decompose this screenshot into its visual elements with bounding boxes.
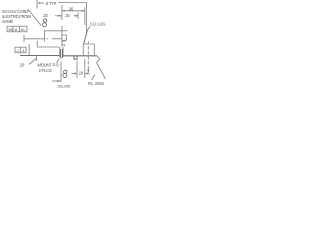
figure-8 glyph bottom xyxy=(63,70,67,77)
GDT frame 1 xyxy=(7,26,27,32)
svg-text:.4: .4 xyxy=(22,48,26,53)
wall centre line xyxy=(61,26,63,47)
bottom small arrow to pin xyxy=(52,80,61,82)
leader from .20 bottom-left label xyxy=(29,59,36,65)
dimension .20 line right arrow xyxy=(74,15,78,17)
reference line y39 with tick xyxy=(23,35,25,42)
figure-8 glyph near part corner xyxy=(43,19,47,27)
terminal box xyxy=(83,44,94,56)
GDT frame 2 xyxy=(15,47,26,53)
left face of base xyxy=(28,44,30,56)
extension from pin bottom xyxy=(60,62,62,83)
svg-text:.20: .20 xyxy=(65,13,71,18)
dimension .20 arrow from left xyxy=(55,15,62,17)
svg-text:⊥: ⊥ xyxy=(16,48,20,53)
dimension .36 line xyxy=(62,10,85,12)
leader pin note xyxy=(57,59,60,64)
leader from lug note xyxy=(84,26,90,44)
base line xyxy=(20,55,59,57)
part top edge y30 xyxy=(45,30,68,32)
dashed centerline x88 xyxy=(87,41,89,70)
svg-text:.8: .8 xyxy=(14,27,18,32)
svg-text:CU. LUG: CU. LUG xyxy=(90,22,105,27)
flange step left xyxy=(37,41,59,48)
small step on wall xyxy=(62,45,65,46)
dim .10 arrows xyxy=(72,73,78,75)
svg-text:.20: .20 xyxy=(43,13,49,18)
svg-text:SAME: SAME xyxy=(2,19,13,24)
svg-text:.02±.005: .02±.005 xyxy=(57,84,72,89)
leader from note to part xyxy=(28,9,41,26)
svg-text:.8 TYP: .8 TYP xyxy=(45,1,57,6)
dimension .8 TYP line xyxy=(38,2,44,4)
svg-text:.10: .10 xyxy=(78,71,84,76)
extension for .36 right xyxy=(84,8,86,26)
svg-text:.20: .20 xyxy=(19,63,25,68)
small tab below base xyxy=(74,56,77,59)
svg-text:4C: 4C xyxy=(21,27,26,32)
svg-text:2 PLCS: 2 PLCS xyxy=(39,68,52,73)
pin through base xyxy=(60,47,63,58)
base step right end, break zigzag xyxy=(97,56,101,63)
svg-text:P.L. 2X04: P.L. 2X04 xyxy=(88,81,105,86)
note leader top dim tick xyxy=(36,0,38,9)
svg-text:MOUNT P-S: MOUNT P-S xyxy=(38,63,60,68)
leader to bottom right note xyxy=(97,63,106,80)
dim .10 extensions xyxy=(76,61,78,78)
notch on right of wall xyxy=(62,35,66,40)
extension line left x62 xyxy=(61,5,63,20)
extension line right outer xyxy=(84,3,87,45)
part edge vertical x44 xyxy=(44,30,46,42)
svg-text:X8: X8 xyxy=(8,27,13,32)
